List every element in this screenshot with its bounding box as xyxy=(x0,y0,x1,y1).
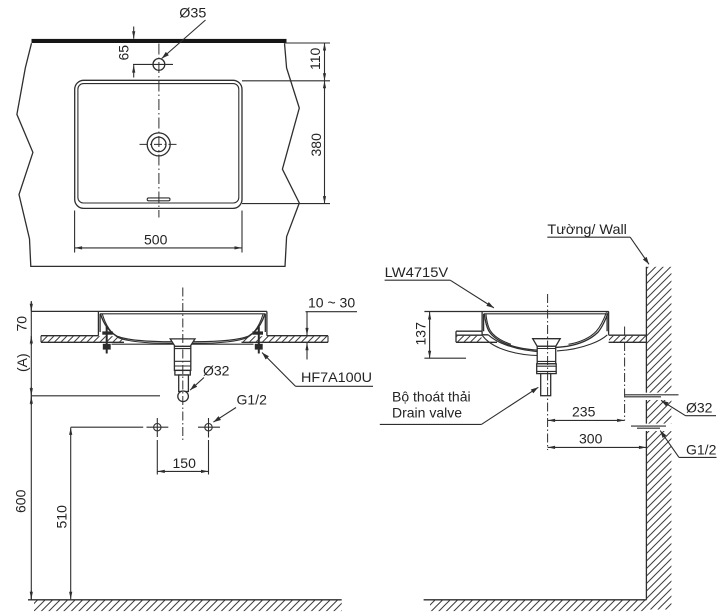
svg-text:65: 65 xyxy=(116,45,132,61)
dimension 110 xyxy=(242,43,330,81)
dimension 10 ~ 30 xyxy=(306,295,358,360)
dimension 65 xyxy=(116,27,174,78)
label Ø32 (side) xyxy=(661,400,716,416)
leader Ø32 (front) xyxy=(190,378,204,391)
svg-text:510: 510 xyxy=(54,505,70,529)
drain body (front view) xyxy=(174,346,190,370)
vertical centerline (plan) xyxy=(158,44,160,218)
counter hatch right segment (side view) xyxy=(609,336,646,342)
supply hole left (front view) xyxy=(147,418,169,437)
bowl inner curve left (side view) xyxy=(484,314,553,351)
basin underside lower curve left (side view) xyxy=(482,335,540,355)
fixing bracket left bolt xyxy=(106,327,108,354)
faucet hole (plan) xyxy=(153,59,165,71)
fixing bracket right nut xyxy=(255,344,263,350)
extension line to 510 dim xyxy=(71,426,144,428)
leader for Ø35 xyxy=(162,20,206,59)
dimension 500 xyxy=(75,211,242,253)
svg-text:10 ~ 30: 10 ~ 30 xyxy=(308,295,355,311)
bowl inner curve second line (front view) xyxy=(102,314,263,343)
drain centerline (side view) xyxy=(547,294,549,450)
wall hatch gap at Ø32 stub xyxy=(645,393,672,400)
floor hatch left xyxy=(34,601,342,612)
counter end caps (front view) xyxy=(41,336,328,343)
left dimension column line xyxy=(30,302,32,600)
counter top line (front view) xyxy=(41,335,328,337)
fixing bracket right plate xyxy=(253,331,264,334)
dimension 380 xyxy=(242,81,330,204)
front view vertical centerline xyxy=(182,288,184,441)
counter lines left segment (side view) xyxy=(456,331,497,342)
basin underside line (front view) xyxy=(112,343,254,345)
svg-text:HF7A100U: HF7A100U xyxy=(301,369,372,385)
extension line at drain bottom (A) xyxy=(31,395,160,397)
wall face line (side view) xyxy=(645,267,647,600)
counter hatch left (front view) xyxy=(41,336,123,342)
svg-text:(A): (A) xyxy=(14,353,30,372)
basin outer rim (plan) xyxy=(75,80,242,208)
svg-text:70: 70 xyxy=(14,316,30,332)
svg-text:Ø32: Ø32 xyxy=(203,363,230,379)
drain tailpipe (side view) xyxy=(541,374,551,396)
svg-text:137: 137 xyxy=(412,322,428,346)
drain tailpipe (front view) xyxy=(179,375,189,392)
drain body lines (front view) xyxy=(174,349,190,366)
supply centerline 65 from wall (side view) xyxy=(624,327,626,421)
svg-text:300: 300 xyxy=(579,431,603,447)
floor line left xyxy=(28,599,342,601)
overflow slot (plan) xyxy=(147,198,170,201)
svg-text:Drain valve: Drain valve xyxy=(392,405,462,421)
wall face (plan view, thick line) xyxy=(32,39,287,43)
bowl inner curve left second line (side view) xyxy=(486,314,511,345)
drain inner circle (plan) xyxy=(151,137,166,152)
bowl inner curve right (side view) xyxy=(553,312,609,347)
dimension 300 xyxy=(548,431,647,448)
dim (A) arrows xyxy=(30,387,32,396)
counter outline with break lines (plan) xyxy=(17,43,299,266)
drain body line (side view) xyxy=(537,349,556,362)
G1/2 stub at wall (side view) xyxy=(631,426,666,428)
bowl inner curve (front view) xyxy=(101,314,265,342)
counter lines right segment (side view) xyxy=(609,335,647,342)
drain nut (front view) xyxy=(175,370,190,375)
supply hole right (front view) xyxy=(198,418,220,438)
svg-text:LW4715V: LW4715V xyxy=(385,264,449,280)
dimension 150 xyxy=(157,440,208,475)
counter bottom line (front view) xyxy=(41,341,328,343)
svg-text:G1/2: G1/2 xyxy=(237,392,268,408)
basin rim inner line (front view) xyxy=(100,313,265,315)
label Bo thoat thai / Drain valve xyxy=(380,387,539,424)
floor hatch right xyxy=(430,601,646,612)
svg-text:G1/2: G1/2 xyxy=(686,442,717,458)
basin rim top line (front view, with 70-dim extension to left) xyxy=(31,310,267,312)
svg-text:150: 150 xyxy=(173,455,197,471)
dimension 235 xyxy=(548,404,625,421)
wall hatch (side view) xyxy=(646,267,671,610)
basin underside curve left (side view) xyxy=(488,335,545,352)
fixing bracket left nut xyxy=(103,344,111,350)
wall hatch gap at G1/2 stub xyxy=(645,424,672,431)
drain outer circle (plan) xyxy=(147,133,170,156)
dim 600 arrows xyxy=(30,396,32,405)
drain nut lines (side view) xyxy=(537,366,557,371)
dim 70 arrows xyxy=(30,301,32,311)
label Tuong/Wall xyxy=(547,221,649,264)
basin underside curve right (side view) xyxy=(557,335,607,351)
svg-text:110: 110 xyxy=(307,47,323,70)
svg-text:235: 235 xyxy=(572,404,596,420)
basin rim inner line (side view) xyxy=(484,313,607,315)
basin left edge (front view) xyxy=(98,311,100,335)
drain pipe end circle Ø32 (front view) xyxy=(178,391,189,402)
svg-text:380: 380 xyxy=(308,133,324,157)
leader G1/2 (front) xyxy=(213,408,236,423)
svg-text:Tường/ Wall: Tường/ Wall xyxy=(547,221,627,237)
fixing bracket right bolt xyxy=(258,327,260,354)
drain flange (side view) xyxy=(533,339,561,347)
basin right edge (front view) xyxy=(265,311,267,335)
label G1/2 (side) xyxy=(660,431,716,458)
Ø32 pipe stub at wall (side view) xyxy=(625,395,679,397)
basin right edge (side view) xyxy=(607,312,609,335)
svg-text:Ø35: Ø35 xyxy=(179,5,206,21)
svg-text:Bộ thoát thải: Bộ thoát thải xyxy=(392,389,471,405)
horizontal centerline through drain (plan) xyxy=(140,143,179,145)
svg-text:600: 600 xyxy=(13,489,29,513)
drain body (side view) xyxy=(537,346,556,364)
svg-text:Ø32: Ø32 xyxy=(686,400,713,416)
basin left edge (side view) xyxy=(482,312,488,335)
counter hatch left segment (side view) xyxy=(456,336,482,342)
basin rim line (side view, extended left for 137 dim) xyxy=(424,311,608,313)
drain flange (front view) xyxy=(170,339,195,347)
fixing bracket left plate xyxy=(102,331,113,334)
basin inner rim (plan) xyxy=(78,84,239,203)
floor line right xyxy=(424,599,647,601)
drain nut (side view) xyxy=(537,364,557,374)
counter hatch right (front view) xyxy=(243,336,328,342)
dimension 137 xyxy=(412,312,466,358)
svg-text:500: 500 xyxy=(144,232,168,248)
label LW4715V xyxy=(385,264,494,308)
dimension 510 xyxy=(54,427,71,599)
bowl inner curve right second line (side view) xyxy=(569,312,607,344)
label HF7A100U xyxy=(262,353,373,387)
